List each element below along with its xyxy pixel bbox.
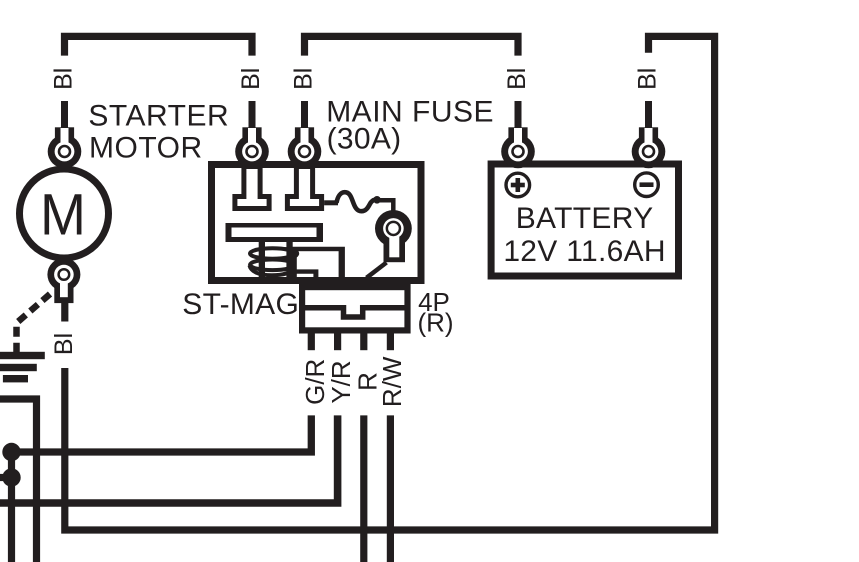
relay coil right tip over bracket [284,249,297,258]
wire R from 4P pin 3 to bottom edge [360,415,367,562]
svg-text:ST-MAG: ST-MAG [182,288,299,321]
wire junction column down to bottom edge [8,452,15,562]
wire stub battery plus [515,101,522,128]
wire dashed motor to ground [17,294,51,352]
relay wire fuse to ring terminal [377,200,393,213]
connector 4P pin 3 [360,334,367,351]
svg-text:(R): (R) [418,308,454,338]
relay coil [250,248,296,275]
relay step bracket [290,247,345,277]
ground symbol [0,352,45,383]
relay fuse element squiggle [337,192,375,211]
bullet connector relay left [235,127,269,168]
wire stub relay right post [301,101,308,128]
svg-text:Bl: Bl [49,68,77,90]
wire top bracket 3 + right side down + bottom run (battery minus, Bl) [65,36,715,530]
wire from left edge turning down to bottom edge [0,399,37,562]
wire top bracket 1 (starter motor to ST-MAG left post, Bl) [65,36,253,55]
battery box [491,164,678,276]
wire stub relay left post [249,101,256,128]
wire Y/R from 4P pin 2 to left edge [0,415,338,503]
wire top bracket 2 (ST-MAG right post to battery plus, Bl) [305,36,519,55]
bullet connector battery minus [632,127,666,168]
svg-text:Bl: Bl [289,68,317,90]
svg-text:M: M [40,182,86,247]
starter motor M1 body [20,169,109,258]
svg-text:BATTERY: BATTERY [516,202,654,235]
wire stub motor top [61,101,68,128]
connector 4P pin 1 [308,334,315,351]
node junction dot B [2,468,20,486]
bullet connector battery plus [501,127,535,168]
node junction dot A [2,443,20,461]
svg-text:Bl: Bl [503,68,531,90]
connector 4P box [302,287,407,330]
relay fuse end dot [373,196,381,204]
connector 4P pin 4 [387,334,394,351]
connector 4P pin 2 [334,334,341,351]
bullet connector motor top [48,127,82,168]
wire G/R from 4P pin 1 to junction dot A [12,415,312,452]
bullet connector motor bottom [47,258,80,303]
battery minus terminal symbol [635,173,659,197]
connector 4P key divider [305,308,406,317]
wire stub battery minus [645,101,652,128]
svg-text:R/W: R/W [377,356,407,407]
wire stub from junction dot B to left edge [0,474,12,481]
svg-text:Bl: Bl [237,68,265,90]
relay ST-MAG box [212,165,422,281]
svg-text:STARTER: STARTER [88,99,229,132]
svg-text:Bl: Bl [50,333,78,355]
relay left post terminal [232,166,271,211]
bullet connector relay right [288,127,322,168]
relay ring terminal [375,210,412,262]
svg-text:12V 11.6AH: 12V 11.6AH [503,235,666,268]
svg-text:Y/R: Y/R [326,360,356,403]
battery plus terminal symbol [506,173,530,197]
relay right post terminal [285,166,324,211]
wire motor bottom to Bl label [61,303,68,322]
svg-text:(30A): (30A) [327,123,402,156]
relay contact plate T-bar [226,223,324,277]
wire R/W from 4P pin 4 to bottom edge [387,415,394,562]
relay moving contact arm diagonal [367,263,387,278]
svg-text:Bl: Bl [633,68,661,90]
svg-text:MOTOR: MOTOR [89,132,203,165]
relay wire post to fuse [324,200,338,205]
